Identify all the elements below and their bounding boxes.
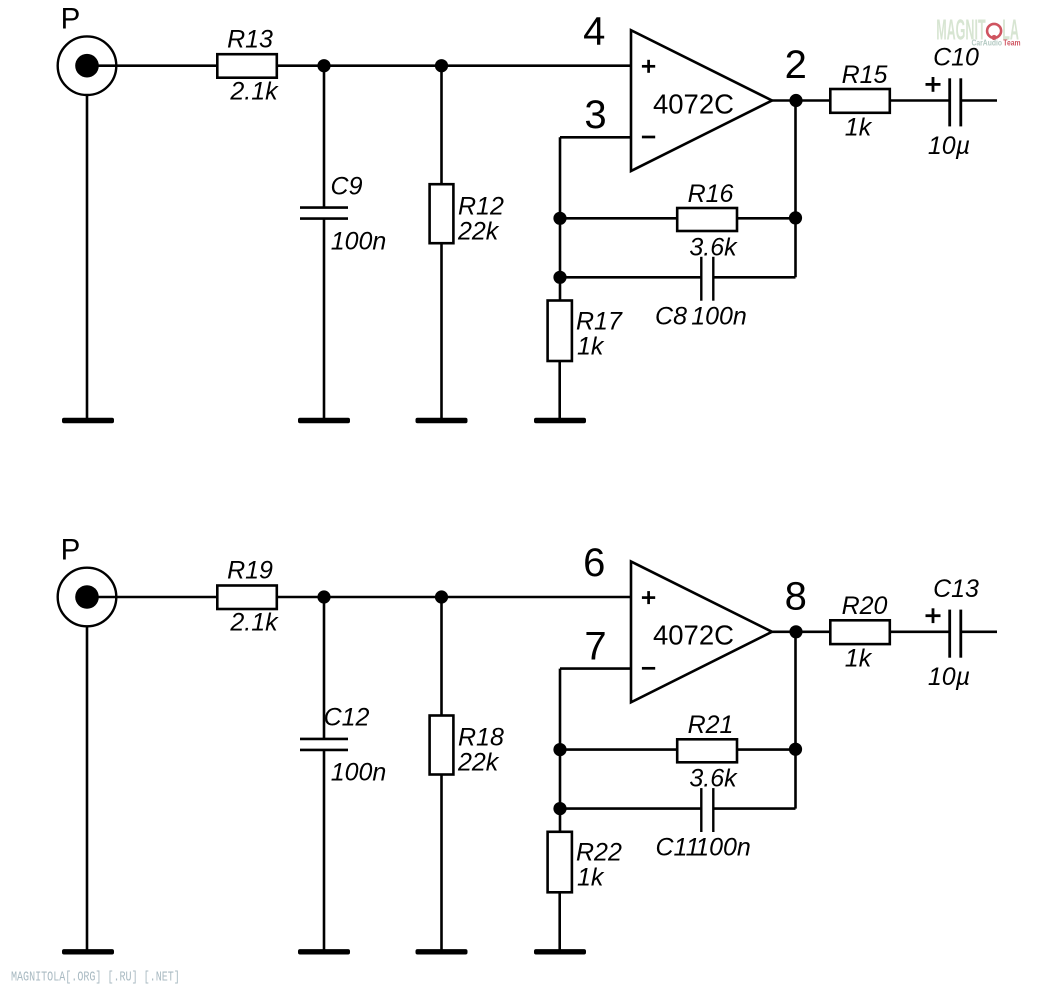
svg-text:10µ: 10µ [928, 663, 970, 691]
wire: to R16 left (left channel) [560, 217, 677, 220]
wire: R15 to C10 (left channel) [890, 99, 950, 102]
wire: R13 to op-amp + input (left channel) [277, 64, 631, 67]
ground (R18) [416, 949, 468, 954]
node: C8 left junction (left channel) [553, 271, 566, 284]
node: R21 right junction (right channel) [789, 743, 802, 756]
svg-text:1k: 1k [577, 864, 605, 892]
resistor R17 [548, 301, 572, 362]
svg-text:2.1k: 2.1k [229, 609, 279, 637]
wire: C9 to ground (left channel) [323, 219, 326, 420]
svg-text:7: 7 [584, 624, 606, 668]
node: R16 left junction (left channel) [553, 212, 566, 225]
svg-text:C9: C9 [331, 172, 363, 200]
svg-text:MAGNITOLA[.ORG] [.RU] [.NET]: MAGNITOLA[.ORG] [.RU] [.NET] [11, 969, 180, 985]
resistor R13 [217, 54, 276, 77]
svg-text:1k: 1k [845, 113, 873, 141]
svg-text:C8: C8 [655, 302, 687, 330]
capacitor C9 [300, 208, 348, 219]
svg-text:R21: R21 [688, 711, 734, 739]
svg-text:4072C: 4072C [653, 620, 734, 651]
svg-text:22k: 22k [457, 749, 500, 777]
svg-text:1k: 1k [845, 645, 873, 673]
svg-text:R20: R20 [842, 592, 888, 620]
wire: P shield to ground (left channel) [86, 95, 89, 420]
svg-text:R22: R22 [576, 839, 622, 867]
wire: feedback right vertical (right channel) [794, 632, 797, 809]
wire: junction to C9 (left channel) [323, 66, 326, 208]
svg-text:6: 6 [583, 541, 605, 585]
wire: C8 left segment (left channel) [560, 276, 701, 279]
wire: R19 to op-amp + input (right channel) [277, 596, 631, 599]
node: R18 junction (right channel) [435, 590, 448, 603]
svg-text:4: 4 [583, 10, 605, 54]
watermark MAGNITOLA[.ORG] [.RU] [.NET] [11, 969, 180, 985]
capacitor C8 [701, 257, 713, 301]
ground (R22) [534, 949, 586, 954]
svg-text:22k: 22k [457, 217, 500, 245]
resistor R16 [677, 208, 737, 231]
svg-text:10µ: 10µ [928, 132, 970, 160]
svg-text:2: 2 [785, 43, 807, 87]
svg-text:8: 8 [785, 575, 807, 619]
wire: feedback left vertical (right channel) [559, 669, 562, 833]
wire: P shield to ground (right channel) [86, 626, 89, 951]
capacitor C10 (electrolytic) [950, 78, 961, 126]
capacitor C13 (electrolytic) [950, 610, 961, 658]
wire: op-amp output to R15 (left channel) [772, 99, 830, 102]
svg-text:P: P [61, 534, 81, 567]
op-amp - input marker (right channel) [642, 667, 655, 670]
svg-text:R12: R12 [458, 192, 504, 220]
svg-text:R16: R16 [688, 180, 734, 208]
svg-text:Team: Team [1003, 38, 1021, 48]
wire: C12 to ground (right channel) [323, 750, 326, 951]
svg-text:100n: 100n [695, 834, 751, 862]
capacitor C12 [300, 739, 348, 750]
svg-text:R15: R15 [842, 61, 888, 89]
svg-text:C13: C13 [933, 575, 979, 603]
wire: R17 to ground (left channel) [558, 361, 561, 420]
svg-text:R13: R13 [227, 25, 273, 53]
connector P (RCA input right channel) [58, 568, 117, 627]
ground (C9) [298, 418, 350, 423]
op-amp 4072C (left channel half) [631, 30, 772, 171]
wire: R20 to C13 (right channel) [890, 630, 950, 633]
wire: inverting input (right channel) [560, 667, 631, 670]
svg-text:2.1k: 2.1k [229, 77, 279, 105]
wire: R16 right to output node (left channel) [737, 217, 796, 220]
node: output junction (right channel) [789, 625, 802, 638]
wire: junction to R18 (right channel) [440, 597, 443, 716]
wire: R21 right to output node (right channel) [737, 748, 796, 751]
resistor R21 [677, 739, 737, 762]
node: C11 left junction (right channel) [553, 802, 566, 815]
svg-text:100n: 100n [331, 227, 387, 255]
wire: junction to C12 (right channel) [323, 597, 326, 739]
svg-text:C12: C12 [324, 704, 370, 732]
node: output junction (left channel) [789, 94, 802, 107]
wire: C13 to output (right channel) [961, 630, 997, 633]
wire: C10 to output (left channel) [961, 99, 997, 102]
node: R19/C12 junction (right channel) [317, 590, 330, 603]
ground (R17) [534, 418, 586, 423]
node: R12 junction (left channel) [435, 59, 448, 72]
svg-text:P: P [61, 2, 81, 35]
logo MAGNITOLA (watermark) [936, 13, 1021, 47]
svg-text:CarAudio: CarAudio [972, 38, 1003, 48]
connector P (RCA input left channel) [58, 36, 117, 95]
polarity + (C13) [926, 608, 941, 623]
wire: C11 right segment (right channel) [713, 807, 795, 810]
wire: input P to R19 (right channel) [87, 596, 217, 599]
wire: feedback right vertical (left channel) [794, 101, 797, 278]
polarity + (C10) [926, 77, 941, 92]
resistor R19 [217, 586, 276, 610]
resistor R22 [548, 832, 572, 893]
resistor R18 [430, 716, 454, 775]
op-amp + input marker (right channel) [642, 591, 655, 604]
ground (P left channel) [62, 418, 114, 423]
resistor R12 [430, 184, 454, 243]
op-amp - input marker (left channel) [642, 136, 655, 139]
ground (P right channel) [62, 949, 114, 954]
wire: inverting input (left channel) [560, 136, 631, 139]
node: R21 left junction (right channel) [553, 743, 566, 756]
wire: R12 to ground (left channel) [440, 243, 443, 420]
svg-text:100n: 100n [331, 759, 387, 787]
node: R13/C9 junction (left channel) [317, 59, 330, 72]
capacitor C11 [701, 788, 713, 832]
wire: input P to R13 (left channel) [87, 64, 217, 67]
svg-text:4072C: 4072C [653, 88, 734, 119]
wire: C8 right segment (left channel) [713, 276, 795, 279]
wire: R22 to ground (right channel) [558, 892, 561, 951]
wire: junction to R12 (left channel) [440, 66, 443, 185]
svg-text:R18: R18 [458, 724, 504, 752]
op-amp + input marker (left channel) [642, 60, 655, 73]
wire: feedback left vertical (left channel) [559, 137, 562, 301]
resistor R20 [830, 620, 890, 644]
wire: to R21 left (right channel) [560, 748, 677, 751]
wire: R18 to ground (right channel) [440, 774, 443, 951]
svg-text:R19: R19 [227, 557, 273, 585]
wire: C11 left segment (right channel) [560, 807, 701, 810]
ground (R12) [416, 418, 468, 423]
ground (C12) [298, 949, 350, 954]
svg-text:C11: C11 [655, 834, 699, 862]
op-amp 4072C (right channel half) [631, 562, 772, 703]
svg-text:1k: 1k [577, 332, 605, 360]
svg-text:100n: 100n [691, 302, 747, 330]
svg-text:3: 3 [584, 93, 606, 137]
resistor R15 [830, 89, 890, 113]
svg-text:R17: R17 [576, 307, 623, 335]
node: R16 right junction (left channel) [789, 211, 802, 224]
wire: op-amp output to R20 (right channel) [772, 630, 830, 633]
